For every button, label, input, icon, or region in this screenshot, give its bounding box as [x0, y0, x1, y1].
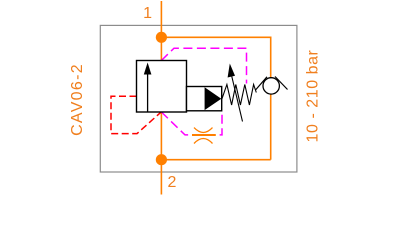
component boundary (gray frame): [100, 25, 297, 172]
valve main envelope (square): [137, 61, 187, 113]
wire: top rail to right: [161, 36, 270, 38]
svg-text:1: 1: [143, 5, 152, 22]
pilot line (magenta dashed) from valve top to spring side: [161, 48, 246, 83]
check valve ball (circle): [263, 78, 279, 94]
orifice flow segment (orange solid over pilot line): [192, 134, 216, 136]
flow arrow inside valve: shaft: [147, 74, 149, 112]
svg-text:CAV06-2: CAV06-2: [69, 63, 86, 136]
adjustment arrow shaft across spring: [232, 77, 243, 122]
drain line (red dashed) from valve left side around to valve bottom: [111, 96, 161, 133]
check valve seat right line: [275, 77, 288, 90]
check valve seat left line: [255, 77, 267, 90]
wire: port 2 vertical line: [160, 112, 162, 195]
node junction dot at port 2: [156, 154, 167, 165]
wire: port 1 vertical line: [160, 1, 162, 61]
wire: bottom rail: [161, 159, 270, 161]
spring (zigzag): [222, 85, 256, 106]
svg-text:10 - 210 bar: 10 - 210 bar: [305, 49, 322, 142]
relief element triangle (flow to tank): [205, 87, 222, 110]
pilot line (magenta dashed) lower: valve bottom to orifice to relief box: [161, 112, 222, 135]
svg-text:2: 2: [168, 174, 177, 191]
relief element box: [187, 87, 222, 111]
adjustment arrow head: [228, 64, 235, 78]
wire: right rail down: [270, 37, 272, 160]
orifice upper arc: [194, 128, 213, 133]
flow arrow inside valve: head: [144, 63, 152, 75]
orifice lower arc: [194, 139, 213, 144]
node junction dot at port 1: [156, 32, 167, 43]
